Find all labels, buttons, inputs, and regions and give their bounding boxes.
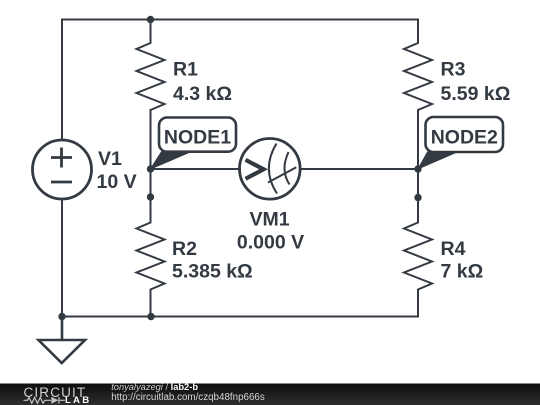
- svg-text:LAB: LAB: [65, 395, 91, 405]
- resistor R3 label: [441, 58, 511, 105]
- svg-text:10 V: 10 V: [97, 171, 137, 193]
- resistor R4: [404, 198, 432, 317]
- wire middle right (voltmeter to node2): [300, 168, 418, 170]
- junction dot R4 top terminal: [414, 194, 421, 201]
- junction dot R2 top terminal: [147, 193, 154, 200]
- wire node1 junction to R2: [150, 169, 152, 197]
- wire node2 junction to R4: [417, 169, 419, 198]
- footer bar: [0, 384, 540, 405]
- svg-text:http://circuitlab.com/czqb48fn: http://circuitlab.com/czqb48fnp666s: [111, 392, 265, 403]
- svg-text:VM1: VM1: [249, 209, 289, 231]
- svg-text:NODE2: NODE2: [431, 127, 498, 149]
- svg-text:5.385 kΩ: 5.385 kΩ: [172, 260, 253, 282]
- wire bottom rail: [62, 316, 418, 318]
- voltage source V1: [33, 140, 92, 199]
- junction dot top rail: [147, 16, 154, 23]
- voltmeter VM1: [239, 139, 300, 200]
- svg-text:R3: R3: [441, 58, 466, 80]
- resistor R1 label: [173, 58, 232, 105]
- wire R1 to node1 junction: [150, 110, 152, 169]
- voltage source V1 label: [97, 148, 137, 193]
- ground: [39, 317, 86, 364]
- svg-text:7 kΩ: 7 kΩ: [441, 260, 484, 282]
- svg-text:tonyalyazegi / lab2-b: tonyalyazegi / lab2-b: [111, 382, 198, 392]
- svg-text:R4: R4: [441, 238, 466, 260]
- resistor R4 label: [441, 238, 484, 283]
- svg-text:4.3 kΩ: 4.3 kΩ: [173, 83, 232, 105]
- node NODE1 flag: [151, 118, 237, 170]
- node NODE2 flag: [418, 117, 503, 169]
- svg-text:R1: R1: [173, 58, 198, 80]
- wire top rail: [62, 20, 418, 141]
- resistor R1: [137, 20, 165, 111]
- junction dot bottom rail R2: [147, 313, 154, 320]
- voltmeter VM1 label: [237, 209, 304, 254]
- junction dot bottom rail ground: [58, 313, 65, 320]
- junction dot node A (NODE1): [147, 165, 154, 172]
- CircuitLab logo resistor-diode glyph: [24, 397, 65, 404]
- svg-text:5.59 kΩ: 5.59 kΩ: [441, 83, 511, 105]
- svg-text:R2: R2: [172, 238, 197, 260]
- resistor R2: [137, 197, 165, 317]
- svg-text:V1: V1: [98, 148, 122, 170]
- resistor R2 label: [172, 238, 253, 282]
- svg-text:0.000 V: 0.000 V: [237, 232, 304, 254]
- resistor R3: [404, 20, 432, 170]
- junction dot node B (NODE2): [414, 165, 421, 172]
- wire V1 bottom lead: [61, 199, 63, 317]
- wire middle left (node1 to voltmeter): [151, 168, 241, 170]
- svg-text:NODE1: NODE1: [164, 127, 231, 149]
